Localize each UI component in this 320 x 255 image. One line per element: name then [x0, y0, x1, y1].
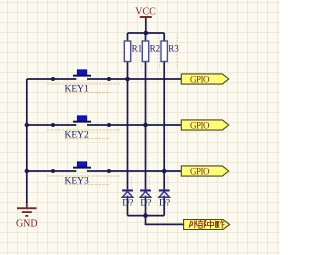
svg-text:D?: D?: [140, 198, 151, 208]
svg-text:KEY2: KEY2: [65, 131, 90, 141]
svg-text:GPIO: GPIO: [190, 120, 210, 130]
svg-text:GND: GND: [16, 219, 38, 230]
svg-text:KEY1: KEY1: [65, 85, 90, 95]
svg-text:R2: R2: [150, 44, 161, 54]
svg-text:GPIO: GPIO: [190, 166, 210, 176]
svg-text:R3: R3: [168, 44, 179, 54]
svg-text:D?: D?: [159, 198, 170, 208]
svg-text:VCC: VCC: [135, 6, 156, 17]
svg-text:R1: R1: [132, 44, 143, 54]
svg-text:D?: D?: [122, 198, 133, 208]
svg-text:KEY3: KEY3: [65, 177, 90, 187]
svg-text:GPIO: GPIO: [190, 74, 210, 84]
